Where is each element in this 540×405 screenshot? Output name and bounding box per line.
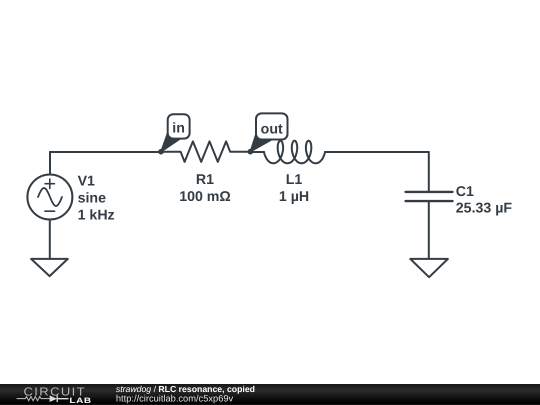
inductor L1 bbox=[264, 141, 325, 164]
ground below C1 bbox=[410, 259, 448, 277]
node in box bbox=[168, 114, 190, 138]
resistor R1 bbox=[161, 141, 250, 162]
svg-text:strawdog / RLC resonance, copi: strawdog / RLC resonance, copied bbox=[116, 384, 255, 394]
wire C1 top vertical bbox=[428, 152, 430, 191]
wire V1 top vertical bbox=[49, 152, 51, 175]
wire out to inductor bbox=[250, 151, 264, 153]
svg-text:LAB: LAB bbox=[69, 397, 91, 405]
wire inductor to corner bbox=[325, 151, 429, 153]
node out box bbox=[256, 113, 288, 139]
ground below V1 bbox=[31, 259, 68, 276]
voltage source V1 bbox=[27, 175, 72, 220]
node out junction dot bbox=[248, 149, 254, 155]
node in junction dot bbox=[158, 149, 164, 155]
wire C1 bottom vertical bbox=[428, 202, 430, 259]
wire V1 bottom vertical bbox=[49, 220, 51, 259]
capacitor C1 plates bbox=[406, 192, 453, 201]
wire V1 to node in bbox=[50, 151, 161, 153]
logo wire and resistor zigzag bbox=[17, 397, 50, 401]
node in pointer bbox=[161, 131, 181, 152]
svg-text:http://circuitlab.com/c5xp69v: http://circuitlab.com/c5xp69v bbox=[116, 394, 234, 404]
footer bar bbox=[0, 384, 540, 405]
logo diode bbox=[50, 395, 57, 402]
node out pointer bbox=[250, 131, 273, 152]
